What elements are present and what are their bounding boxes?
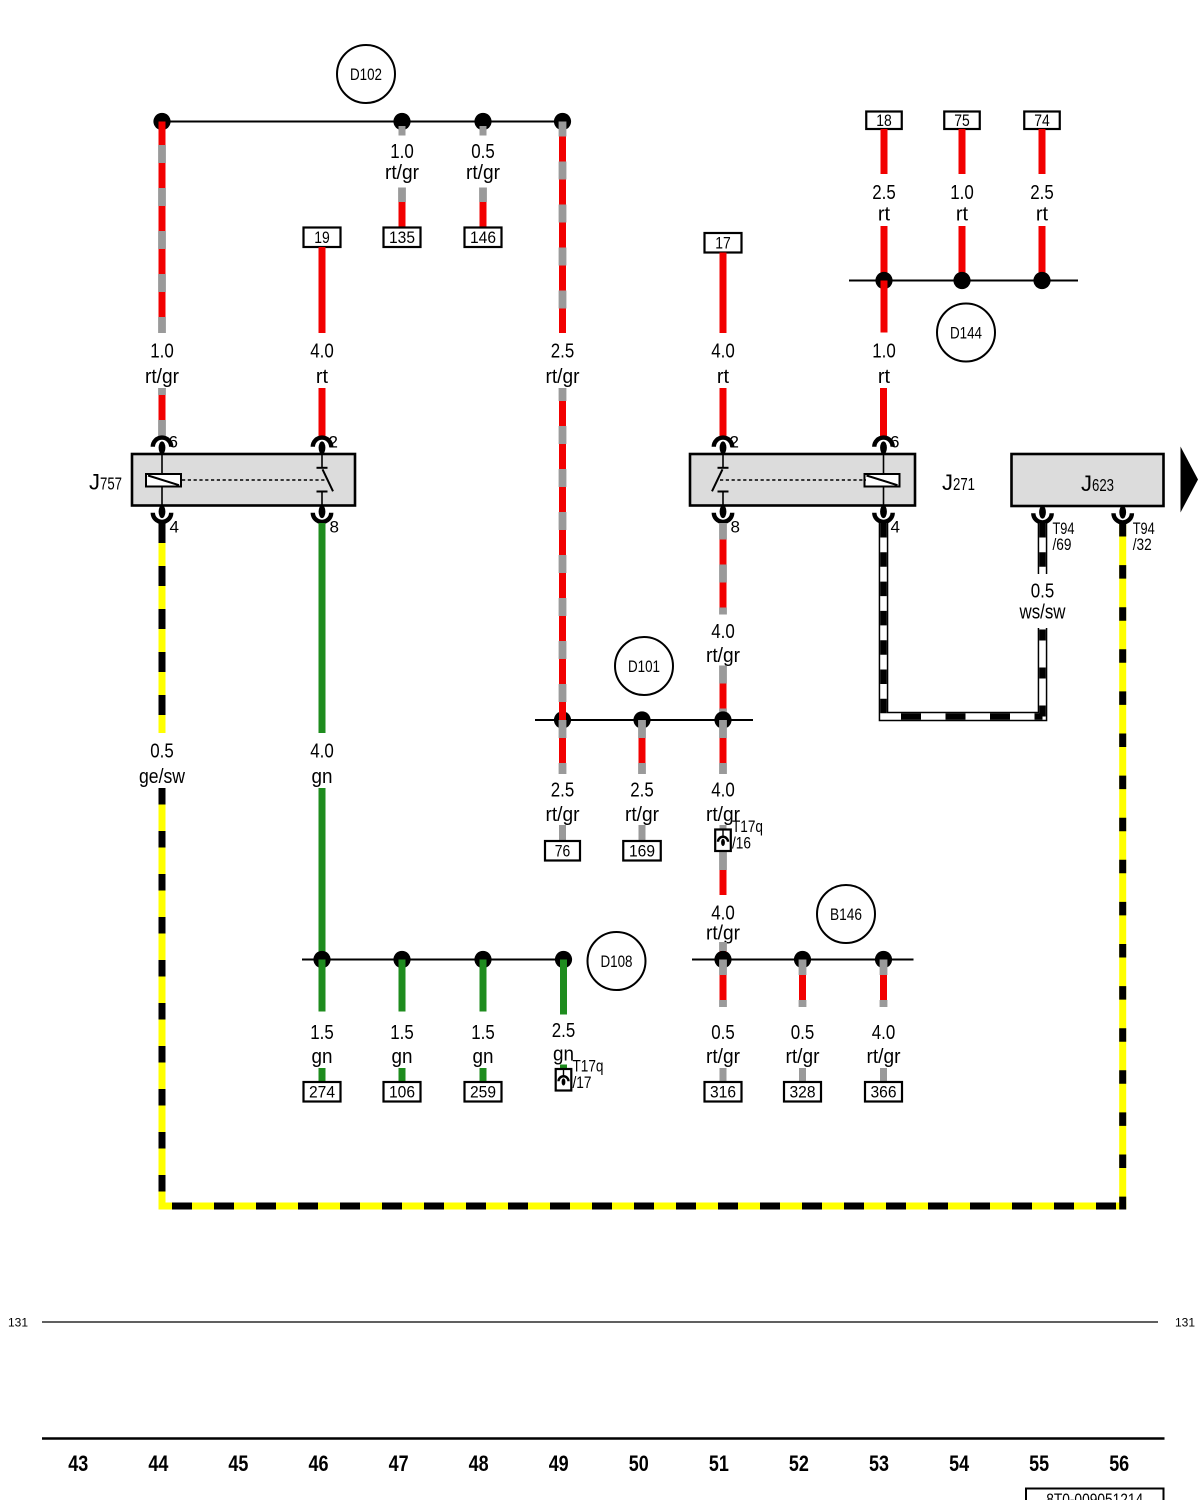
wire 4.0 rt from terminal 19 to J757 pin 2 (upper) (319, 247, 326, 333)
svg-text:4: 4 (891, 518, 900, 537)
svg-text:75: 75 (954, 112, 970, 130)
svg-text:135: 135 (389, 229, 415, 247)
svg-text:0.5: 0.5 (791, 1022, 815, 1044)
svg-text:J: J (942, 470, 953, 495)
node D102 label circle (337, 45, 395, 103)
svg-text:1.0: 1.0 (390, 141, 414, 163)
svg-text:316: 316 (710, 1084, 736, 1102)
svg-text:19: 19 (314, 229, 330, 247)
svg-text:8: 8 (330, 518, 339, 537)
wire 2.5 rt/gr from D102 to D101 (lower) (559, 388, 566, 720)
svg-text:2: 2 (329, 433, 338, 452)
ruler line (42, 1437, 1165, 1440)
svg-text:55: 55 (1029, 1451, 1049, 1476)
node D101 label circle (615, 637, 673, 695)
svg-text:rt: rt (878, 204, 891, 226)
svg-text:2.5: 2.5 (630, 780, 654, 802)
wire 1.0 rt to D144 bus (959, 226, 966, 281)
node D108 label circle (588, 932, 646, 990)
pin 8 connector of J271 (714, 505, 732, 522)
wire 1.5 gn below D108 to terminal 106 (399, 960, 406, 1012)
svg-text:4.0: 4.0 (872, 1022, 896, 1044)
wire 2.5 rt below terminal 18 (881, 129, 888, 174)
svg-text:51: 51 (709, 1451, 729, 1476)
wire 2.5 rt to D144 bus (881, 226, 888, 281)
svg-text:274: 274 (309, 1084, 335, 1102)
wire 2.5 gn below D108 to connector T17q/17 (560, 960, 567, 1015)
svg-text:D101: D101 (628, 657, 660, 676)
wire stub to terminal 76 (559, 825, 566, 841)
svg-text:1.5: 1.5 (471, 1022, 495, 1044)
terminal box 74 (1024, 112, 1060, 131)
svg-text:ge/sw: ge/sw (139, 766, 185, 788)
svg-text:D102: D102 (350, 65, 382, 84)
node D144 label circle (937, 304, 995, 362)
svg-text:gn: gn (553, 1044, 574, 1066)
wire 0.5 rt/gr below B146 to terminal 328 (799, 960, 806, 1008)
svg-text:48: 48 (469, 1451, 489, 1476)
svg-text:6: 6 (890, 433, 899, 452)
svg-text:43: 43 (68, 1451, 88, 1476)
relay J757 box (132, 454, 355, 506)
wire 4.0 rt/gr to D101 bus (lower) (720, 666, 727, 721)
svg-text:623: 623 (1092, 475, 1114, 495)
svg-text:169: 169 (629, 843, 655, 861)
svg-text:rt: rt (956, 204, 969, 226)
svg-text:8: 8 (731, 518, 740, 537)
terminal box 106 (384, 1082, 421, 1102)
wire B146 bus (692, 959, 914, 961)
wire 4.0 gn from J757 pin 8 (upper) (319, 523, 326, 733)
junction on D101 bus right (714, 711, 731, 728)
svg-text:rt/gr: rt/gr (706, 645, 740, 667)
terminal box 19 (304, 228, 341, 248)
terminal box 76 (545, 841, 580, 861)
junction on D144 bus at wire 74 (1033, 272, 1050, 289)
wire 1.0 rt below terminal 75 (959, 129, 966, 174)
relay J757 coil-switch dashed link (182, 479, 326, 481)
svg-text:4.0: 4.0 (310, 341, 334, 363)
svg-text:J: J (89, 470, 100, 495)
wire stub to terminal 106 (399, 1068, 406, 1082)
svg-text:131: 131 (1175, 1316, 1195, 1330)
wire D101 bus (535, 719, 753, 721)
wire segment to terminal 146 (480, 188, 487, 228)
wire stub above connector T17q/17 (560, 1065, 567, 1070)
svg-text:gn: gn (392, 1046, 413, 1068)
wire 4.0 rt/gr below B146 to terminal 366 (880, 960, 887, 1008)
terminal box 169 (623, 841, 661, 861)
svg-text:4.0: 4.0 (711, 621, 735, 643)
wire 2.5 rt to D144 bus (1039, 226, 1046, 281)
terminal box 135 (384, 228, 421, 248)
relay J271 switch (712, 454, 729, 506)
svg-text:2: 2 (730, 433, 739, 452)
svg-text:17: 17 (715, 235, 731, 253)
wire 4.0 rt from terminal 17 to J271 pin 2 (upper) (720, 253, 727, 334)
svg-text:328: 328 (790, 1084, 816, 1102)
pin 8 connector of J757 (313, 505, 331, 522)
svg-text:52: 52 (789, 1451, 809, 1476)
svg-text:D144: D144 (950, 324, 982, 343)
pin 4 connector of J271 (874, 505, 892, 522)
svg-text:rt/gr: rt/gr (145, 366, 179, 388)
svg-text:74: 74 (1034, 112, 1050, 130)
terminal box 316 (705, 1082, 742, 1102)
svg-text:rt/gr: rt/gr (786, 1046, 820, 1068)
ruler track numbers 43-56 (68, 1451, 1129, 1476)
off-page arrow (1181, 447, 1199, 513)
wire 1.0 rt/gr stub below D102 to terminal 135 (399, 126, 406, 136)
svg-text:0.5: 0.5 (711, 1022, 735, 1044)
pin T94/69 connector of J623 (1033, 506, 1051, 523)
wire 4.0 rt/gr to B146 bus (720, 942, 727, 960)
svg-text:2.5: 2.5 (552, 1020, 576, 1042)
relay J271 coil-switch dashed link (720, 479, 866, 481)
wire 4.0 gn to D108 bus (lower) (319, 788, 326, 960)
svg-text:54: 54 (949, 1451, 970, 1476)
wire 1.0 rt/gr from D102 to J757 pin 6 (upper) (159, 122, 166, 334)
svg-text:106: 106 (389, 1084, 415, 1102)
junction on D108 bus 1 (313, 951, 330, 968)
terminal box 18 (866, 112, 902, 131)
control unit J623 box (1012, 454, 1164, 506)
wire 4.0 rt to J271 pin 2 (lower) (720, 388, 727, 437)
relay J271 box (690, 454, 915, 506)
wire D102 bus (162, 121, 563, 123)
svg-text:4.0: 4.0 (711, 780, 735, 802)
svg-text:0.5: 0.5 (471, 141, 495, 163)
part number box 8T0-009051214 (1026, 1489, 1164, 1500)
wire 0.5 ge/sw vertical right leg to J623 T94/32 (1119, 523, 1126, 1210)
junction on D144 bus at wire 75 (953, 272, 970, 289)
svg-text:259: 259 (470, 1084, 496, 1102)
wire 4.0 rt/gr below T17q/16 (720, 851, 727, 895)
wire D144 bus (849, 280, 1078, 282)
wire stub to terminal 259 (480, 1068, 487, 1082)
svg-text:rt: rt (717, 366, 730, 388)
svg-text:D108: D108 (601, 952, 633, 971)
svg-text:0.5: 0.5 (150, 741, 174, 763)
pin 2 connector of J757 (313, 438, 331, 455)
svg-text:8T0-009051214: 8T0-009051214 (1046, 1491, 1143, 1500)
wire stub to terminal 316 (720, 1068, 727, 1082)
svg-text:50: 50 (629, 1451, 649, 1476)
junction on D108 bus 4 (555, 951, 572, 968)
relay J757 switch (317, 454, 334, 506)
junction on D108 bus 2 (393, 951, 410, 968)
pin 4 connector of J757 (153, 505, 171, 522)
svg-text:366: 366 (871, 1084, 897, 1102)
terminal box 274 (304, 1082, 341, 1102)
junction on D102 bus at wire to J757 pin 6 (153, 113, 170, 130)
junction on B146 bus left (714, 951, 731, 968)
wire 1.5 gn below D108 to terminal 259 (480, 960, 487, 1012)
svg-text:rt/gr: rt/gr (466, 162, 500, 184)
relay J271 coil (865, 454, 900, 506)
svg-text:gn: gn (473, 1046, 494, 1068)
connector T17q/17 symbol (556, 1069, 572, 1091)
svg-text:rt: rt (316, 366, 329, 388)
svg-text:1.0: 1.0 (950, 182, 974, 204)
wire 0.5 ge/sw vertical left leg (159, 788, 166, 1206)
wire 0.5 ws/sw stub below J623 T94/69 (1038, 523, 1048, 574)
svg-text:44: 44 (148, 1451, 169, 1476)
svg-text:rt/gr: rt/gr (867, 1046, 901, 1068)
wire 0.5 rt/gr below B146 to terminal 316 (720, 960, 727, 1008)
terminal box 17 (705, 233, 742, 253)
svg-text:49: 49 (549, 1451, 569, 1476)
current track frame line 131 (42, 1321, 1158, 1323)
wire 1.0 rt to J271 pin 6 (lower) (880, 388, 887, 437)
wire segment to terminal 135 (399, 188, 406, 228)
svg-text:146: 146 (470, 229, 496, 247)
svg-text:53: 53 (869, 1451, 889, 1476)
svg-text:757: 757 (100, 474, 122, 494)
wire 1.5 gn below D108 to terminal 274 (319, 960, 326, 1012)
svg-text:1.5: 1.5 (390, 1022, 414, 1044)
svg-text:4.0: 4.0 (711, 341, 735, 363)
svg-text:rt/gr: rt/gr (385, 162, 419, 184)
wire 4.0 rt to J757 pin 2 (lower) (319, 388, 326, 437)
junction on D101 bus left (554, 711, 571, 728)
connector T17q/16 symbol (715, 830, 731, 852)
junction on B146 bus right (875, 951, 892, 968)
svg-text:4.0: 4.0 (711, 903, 735, 925)
svg-text:131: 131 (8, 1316, 28, 1330)
svg-text:rt/gr: rt/gr (546, 366, 580, 388)
svg-text:4.0: 4.0 (310, 741, 334, 763)
svg-text:2.5: 2.5 (551, 780, 575, 802)
svg-text:76: 76 (555, 843, 571, 861)
svg-text:rt: rt (878, 366, 891, 388)
svg-text:rt: rt (1036, 204, 1049, 226)
pin 6 connector of J757 (153, 438, 171, 455)
svg-text:18: 18 (876, 112, 892, 130)
wire 2.5 rt/gr from D102 to D101 (upper) (559, 122, 566, 334)
junction on B146 bus middle (794, 951, 811, 968)
terminal box 259 (465, 1082, 502, 1102)
wire 0.5 ws/sw from J271 pin 4 elbow to J623 T94/69 (884, 523, 1043, 717)
wire stub to terminal 169 (639, 825, 646, 841)
svg-text:J: J (1081, 471, 1092, 496)
junction on D102 bus at wire 135 (393, 113, 410, 130)
wire stub above connector T17q/16 (720, 825, 727, 830)
svg-text:1.0: 1.0 (872, 341, 896, 363)
pin 2 connector of J271 (714, 438, 732, 455)
terminal box 75 (944, 112, 980, 131)
svg-text:1.5: 1.5 (310, 1022, 334, 1044)
relay J757 coil (146, 454, 181, 506)
wire 4.0 rt/gr from J271 pin 8 (upper) (720, 523, 727, 615)
wire stub to terminal 366 (880, 1068, 887, 1082)
svg-text:6: 6 (169, 433, 178, 452)
svg-text:rt/gr: rt/gr (625, 804, 659, 826)
svg-text:gn: gn (312, 766, 333, 788)
svg-text:rt/gr: rt/gr (706, 923, 740, 945)
svg-text:/69: /69 (1053, 535, 1072, 554)
svg-text:2.5: 2.5 (551, 341, 575, 363)
wire 0.5 rt/gr stub below D102 to terminal 146 (480, 126, 487, 136)
svg-text:gn: gn (312, 1046, 333, 1068)
wire 0.5 ge/sw horizontal bottom leg (159, 1203, 1127, 1210)
node B146 label circle (817, 885, 875, 943)
wire 1.0 rt/gr to J757 pin 6 (lower) (159, 388, 166, 437)
junction on D102 bus at wire 146 (474, 113, 491, 130)
pin T94/32 connector of J623 (1114, 506, 1132, 523)
svg-text:45: 45 (228, 1451, 248, 1476)
junction on D102 bus at wire to D101 (554, 113, 571, 130)
wire 1.0 rt from D144 to J271 pin 6 (upper) (881, 281, 888, 333)
wire 4.0 rt/gr below D101 to connector T17q/16 (720, 720, 727, 774)
junction on D144 bus at wire 18 (875, 272, 892, 289)
svg-text:0.5: 0.5 (1031, 581, 1055, 603)
svg-text:rt/gr: rt/gr (706, 1046, 740, 1068)
svg-text:2.5: 2.5 (872, 182, 896, 204)
svg-text:ws/sw: ws/sw (1019, 602, 1066, 624)
svg-text:B146: B146 (830, 905, 862, 924)
wire 0.5 ge/sw from J757 pin 4 (upper) (159, 523, 166, 733)
svg-text:1.0: 1.0 (150, 341, 174, 363)
svg-text:/17: /17 (573, 1073, 592, 1092)
svg-text:/16: /16 (732, 834, 751, 853)
svg-text:46: 46 (309, 1451, 329, 1476)
terminal box 366 (865, 1082, 902, 1102)
svg-text:271: 271 (953, 474, 975, 494)
junction on D101 bus middle (633, 711, 650, 728)
wire D108 bus (302, 959, 564, 961)
pin 6 connector of J271 (874, 438, 892, 455)
terminal box 328 (784, 1082, 821, 1102)
svg-text:4: 4 (170, 518, 179, 537)
svg-text:rt/gr: rt/gr (546, 804, 580, 826)
wire stub to terminal 328 (799, 1068, 806, 1082)
wire 2.5 rt/gr below D101 to terminal 169 (639, 720, 646, 774)
wire 2.5 rt below terminal 74 (1039, 129, 1046, 174)
junction on D108 bus 3 (474, 951, 491, 968)
terminal box 146 (465, 228, 502, 248)
svg-text:56: 56 (1109, 1451, 1129, 1476)
wire stub to terminal 274 (319, 1068, 326, 1082)
svg-text:2.5: 2.5 (1030, 182, 1054, 204)
wire 2.5 rt/gr below D101 to terminal 76 (559, 720, 566, 774)
svg-text:/32: /32 (1133, 535, 1152, 554)
svg-text:47: 47 (389, 1451, 409, 1476)
